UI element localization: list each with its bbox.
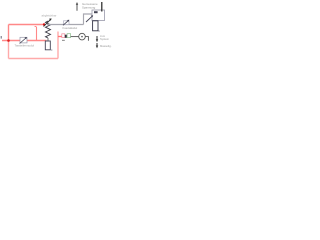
glyph inside box (94, 11, 98, 13)
svg-text:Masseltg.: Masseltg. (100, 44, 112, 48)
arrow up annotation (76, 4, 78, 11)
wire main line grey (47, 24, 84, 26)
wire red mid rail left (2, 40, 20, 42)
wire red riser x36 with tick (35, 27, 37, 41)
resistor R2 (box below zigzag) (45, 41, 50, 50)
svg-text:Koaxialkabel: Koaxialkabel (63, 26, 78, 30)
wire chain below R1 (47, 38, 49, 41)
resistor R1 (vertical zigzag with arrow) (44, 18, 52, 38)
svg-text:Tastteilermodul: Tastteilermodul (15, 43, 35, 47)
svg-text:C: C (51, 49, 53, 52)
svg-text:Spannung: Spannung (82, 6, 96, 10)
wire into box from top (101, 2, 103, 12)
node junction dot A (43, 23, 45, 25)
wire up to scope box (84, 14, 93, 25)
wire from generator down (85, 37, 88, 41)
svg-text:System: System (100, 37, 110, 41)
tick under connector (62, 40, 65, 41)
node junction dot B (7, 39, 10, 42)
resistor R3 (vertical box below scope box) (93, 21, 98, 31)
capacitor C2 (trimmer with arrow on main line) (63, 20, 69, 26)
svg-text:abgleichbar: abgleichbar (42, 14, 57, 18)
capacitor C1 (variable, box with arrow) (20, 37, 27, 43)
connector red box (62, 34, 65, 38)
wire red bottom rail (9, 58, 59, 60)
wire red left vertical (8, 25, 10, 43)
arrow diagonal at box corner (86, 16, 93, 22)
connector plug dark (65, 35, 67, 38)
terminal tick top-left (0, 36, 2, 39)
wire to generator (71, 36, 79, 38)
arrow down 1 (96, 36, 98, 39)
generator G1 circle (79, 33, 86, 40)
arrow down 2 (96, 43, 98, 46)
wire red top rail (9, 24, 45, 26)
wire red right vertical (57, 32, 59, 59)
wire red mid rail right (27, 40, 47, 42)
scope input box U1 (92, 10, 105, 21)
green adapter box (67, 34, 71, 38)
wire red to connector (58, 36, 62, 38)
svg-text:C: C (98, 30, 100, 33)
